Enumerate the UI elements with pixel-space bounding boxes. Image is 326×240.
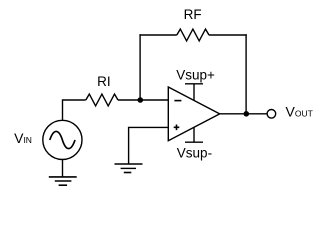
node: output junction: [244, 111, 250, 117]
wire: op-amp output: [220, 113, 267, 115]
wire: RI to op-amp inverting input: [118, 99, 168, 101]
source V1 sine wave: [50, 131, 75, 148]
power pin Vsup-: [185, 127, 203, 142]
resistor RI: [86, 94, 118, 106]
ground (source): [49, 177, 77, 185]
svg-text:Vsup+: Vsup+: [176, 67, 215, 82]
svg-text:RF: RF: [184, 7, 202, 22]
resistor RF: [177, 29, 209, 41]
wire: RF left lead: [139, 34, 176, 36]
source V1: [43, 120, 82, 159]
wire: non-inverting input to ground: [129, 127, 169, 164]
terminal VOUT: [267, 110, 276, 119]
wire: source top to RI: [63, 100, 86, 121]
ground (non-inverting input): [115, 164, 143, 173]
svg-text:Vsup-: Vsup-: [177, 146, 212, 161]
wire: source to ground: [62, 160, 64, 177]
op-amp inverting input symbol (minus): [174, 100, 181, 102]
wire: RF right lead: [209, 34, 247, 36]
wire: feedback left vertical: [139, 34, 141, 100]
op-amp non-inverting input symbol (plus): [174, 125, 180, 131]
node: inverting input junction: [138, 97, 144, 103]
svg-text:RI: RI: [97, 74, 111, 89]
wire: feedback right vertical: [245, 34, 247, 114]
op-amp U1: [168, 87, 219, 141]
power pin Vsup+: [185, 84, 203, 101]
